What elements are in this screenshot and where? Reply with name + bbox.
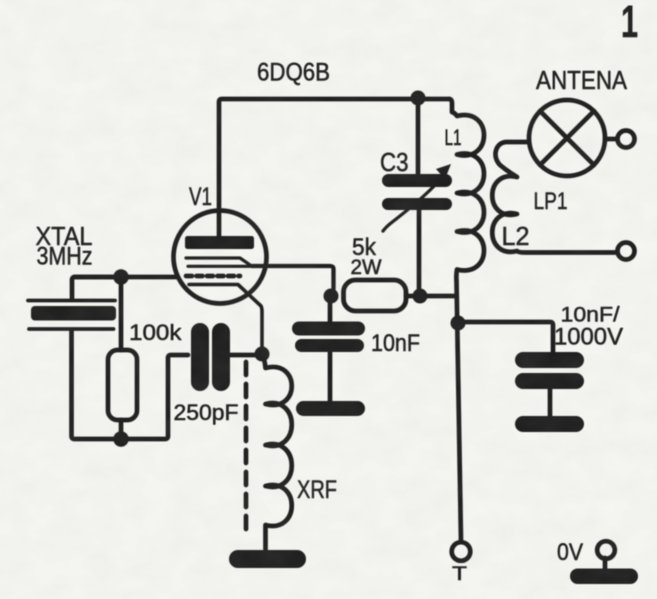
node junction crystal/100k bottom (113, 431, 128, 446)
ground 10nF (296, 401, 365, 416)
dashed line shield (244, 362, 249, 536)
inductor L2 (492, 142, 616, 253)
tube V1 plate (185, 236, 254, 249)
tube V1 cathode (189, 285, 262, 349)
lamp LP1 (529, 100, 605, 176)
svg-text:0V: 0V (557, 539, 583, 566)
terminal T (452, 542, 471, 561)
inductor XRF (262, 354, 292, 549)
resistor 5k (344, 280, 407, 311)
svg-text:10nF: 10nF (371, 330, 420, 357)
svg-text:T: T (452, 564, 468, 585)
svg-text:L1: L1 (445, 125, 462, 150)
inductor L1 (449, 99, 484, 281)
capacitor 10nF/1000V plates (515, 352, 584, 389)
node junction C3 top (411, 91, 426, 106)
resistor 100k (108, 350, 137, 420)
wire lamp to antenna terminal (605, 137, 617, 142)
svg-text:ANTENA: ANTENA (536, 67, 627, 95)
node junction screen/5k/10nF (324, 289, 339, 304)
wire 250pF left lead (121, 355, 188, 439)
capacitor 10nF plates (292, 322, 365, 353)
wire to 1000V cap (458, 322, 553, 352)
wire C3 lower branch (417, 210, 422, 296)
wire 0V stub (603, 558, 608, 569)
wire crystal left (72, 277, 122, 439)
crystal XTAL plates (28, 301, 116, 330)
wire 5k right lead (406, 294, 456, 299)
svg-text:6DQ6B: 6DQ6B (257, 59, 330, 87)
capacitor 250pF plates (191, 323, 230, 391)
ground XRF (229, 550, 306, 568)
wire 10nF ground stub (328, 352, 333, 402)
node junction 5k/B+ (413, 289, 428, 304)
svg-text:XRF: XRF (297, 476, 337, 504)
terminal antenna (618, 131, 635, 148)
wire 1000V ground stub (548, 389, 553, 417)
node junction B+/1000V cap (451, 316, 466, 331)
wire grid lead (74, 275, 176, 280)
terminal L2 output (618, 243, 635, 260)
svg-text:2W: 2W (351, 256, 382, 279)
node junction cathode/XRF (255, 347, 270, 362)
wire plate lead and top B+ rail (219, 99, 449, 238)
terminal 0V (597, 541, 615, 559)
wire C3 upper branch (416, 98, 421, 174)
resistor 100k leads (119, 277, 124, 439)
svg-text:C3: C3 (380, 147, 409, 177)
svg-text:250pF: 250pF (174, 400, 239, 425)
node junction grid/crystal/100k (113, 269, 128, 284)
wire 250pF right lead (229, 353, 262, 358)
ground 0V (570, 569, 638, 585)
capacitor C3 variable (382, 164, 452, 231)
ground 10nF/1000V (515, 416, 584, 432)
wire B+ vertical to T (457, 281, 462, 541)
tube V1 screen grid (186, 258, 252, 266)
wire 10nF stub (328, 296, 333, 321)
svg-text:V1: V1 (189, 183, 212, 211)
svg-text:LP1: LP1 (534, 188, 568, 215)
wire screen to 5k (252, 266, 334, 289)
svg-text:1: 1 (621, 0, 638, 47)
svg-text:L2: L2 (502, 221, 530, 251)
svg-text:3MHz: 3MHz (37, 243, 93, 271)
tube V1 envelope (174, 211, 267, 304)
svg-text:100k: 100k (129, 320, 183, 345)
svg-text:1000V: 1000V (554, 324, 623, 351)
tube V1 control grid dashed (186, 274, 240, 279)
